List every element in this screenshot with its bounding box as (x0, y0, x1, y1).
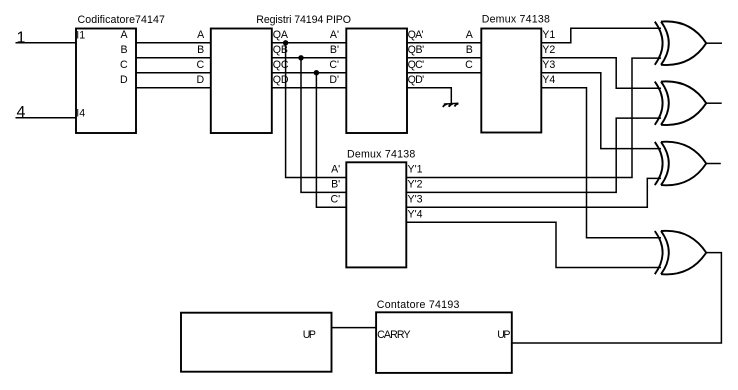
svg-text:B: B (121, 44, 128, 56)
svg-text:C': C' (331, 193, 341, 205)
svg-text:QA': QA' (408, 29, 424, 41)
svg-text:C: C (197, 59, 205, 71)
svg-text:A': A' (330, 29, 339, 41)
svg-text:Y'2: Y'2 (408, 179, 423, 191)
svg-text:A: A (121, 29, 129, 41)
svg-text:QC': QC' (408, 59, 425, 71)
svg-text:C: C (465, 59, 473, 71)
svg-text:Codificatore74147: Codificatore74147 (78, 14, 165, 26)
svg-text:A: A (197, 29, 205, 41)
svg-text:D: D (120, 74, 128, 86)
svg-text:Demux 74138: Demux 74138 (482, 14, 550, 26)
svg-text:Registri 74194 PIPO: Registri 74194 PIPO (256, 14, 351, 26)
svg-text:C: C (120, 59, 128, 71)
svg-text:C': C' (329, 59, 339, 71)
svg-text:QB': QB' (408, 44, 425, 56)
svg-text:Y'3: Y'3 (408, 193, 423, 205)
svg-text:B: B (466, 44, 473, 56)
svg-text:Demux 74138: Demux 74138 (347, 149, 415, 161)
svg-text:Y3: Y3 (542, 59, 555, 71)
svg-text:I1: I1 (76, 29, 85, 41)
svg-text:CARRY: CARRY (377, 329, 411, 341)
svg-text:A': A' (331, 164, 340, 176)
svg-text:QD: QD (273, 74, 289, 86)
svg-text:Y'4: Y'4 (408, 208, 423, 220)
svg-text:I4: I4 (76, 107, 85, 119)
svg-text:QD': QD' (408, 74, 425, 86)
svg-text:UP: UP (303, 329, 316, 341)
svg-text:QC: QC (273, 59, 289, 71)
svg-text:QA: QA (273, 29, 289, 41)
svg-text:Y'1: Y'1 (408, 164, 423, 176)
svg-text:B': B' (331, 179, 340, 191)
svg-text:4: 4 (17, 104, 26, 121)
svg-text:A: A (466, 29, 474, 41)
svg-text:B': B' (330, 44, 339, 56)
svg-text:UP: UP (497, 329, 510, 341)
svg-text:Y4: Y4 (542, 74, 555, 86)
svg-text:D: D (197, 74, 205, 86)
svg-text:Contatore 74193: Contatore 74193 (377, 299, 460, 311)
svg-text:1: 1 (17, 29, 26, 46)
svg-text:QB: QB (273, 44, 288, 56)
svg-text:D': D' (329, 74, 339, 86)
svg-text:B: B (197, 44, 204, 56)
svg-text:Y1: Y1 (542, 29, 555, 41)
svg-text:Y2: Y2 (542, 44, 555, 56)
